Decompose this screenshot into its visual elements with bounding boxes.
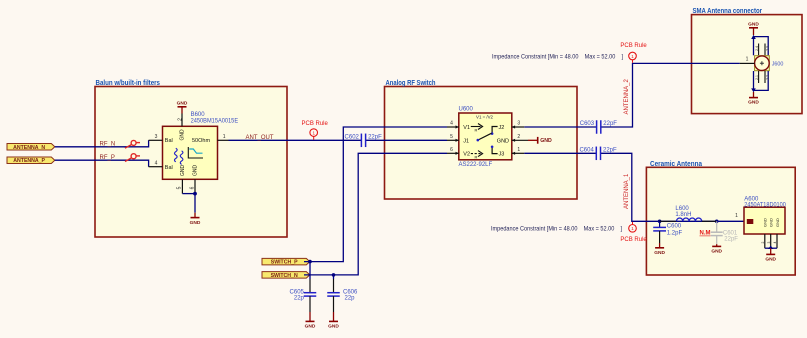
ground below C601: [711, 244, 722, 254]
svg-text:J1: J1: [463, 138, 469, 144]
U600 switch blade: [478, 133, 492, 140]
svg-text:1: 1: [735, 213, 738, 219]
svg-text:GND: GND: [775, 218, 780, 227]
svg-text:1.8nH: 1.8nH: [675, 212, 691, 218]
svg-text:50Ohm: 50Ohm: [192, 138, 210, 144]
junction on SWITCH_N at C606: [332, 273, 336, 277]
op-amp/switch U600 body: [459, 107, 512, 169]
ground below C600: [654, 243, 665, 256]
antenna A600 body: [744, 197, 786, 234]
port SWITCH_P: [262, 258, 310, 265]
svg-text:Impedance Constraint [Min = 48: Impedance Constraint [Min = 48.00 Max = …: [491, 226, 622, 233]
balun pin 2 (top): [181, 114, 183, 127]
U600 pin 1: [512, 152, 524, 154]
svg-text:N.M: N.M: [700, 231, 711, 237]
wire C602 to U600 pin 5: [366, 139, 447, 141]
svg-text:GND: GND: [180, 129, 186, 141]
diff pair directive on RF_N: [125, 140, 140, 148]
svg-text:GND: GND: [305, 324, 316, 330]
J600 center circle: [755, 56, 770, 71]
svg-text:2: 2: [178, 118, 184, 121]
power port GND above J600: [748, 22, 759, 35]
J600 shield pin 2.2: [764, 71, 766, 83]
capacitor C600 1.2pF: [653, 221, 682, 243]
capacitor C603 22pF: [580, 120, 618, 134]
svg-text:Ceramic Antenna: Ceramic Antenna: [650, 161, 702, 168]
port ANTENNA_N: [7, 144, 55, 151]
power port GND below J600: [748, 92, 759, 106]
svg-text:GND: GND: [769, 218, 774, 227]
wire tying A600 ground pins: [765, 247, 777, 249]
svg-text:ANTENNA_N: ANTENNA_N: [13, 145, 45, 151]
svg-text:2.2: 2.2: [766, 75, 770, 80]
balun pin 1: [218, 139, 229, 141]
sheet region: Ceramic Antenna: [646, 161, 795, 275]
svg-text:C604: C604: [579, 147, 594, 153]
svg-text:J2: J2: [499, 125, 505, 131]
A600 pin 4: [776, 234, 778, 248]
ground below C605: [305, 312, 316, 330]
wire C603 to SMA pin 1: [601, 63, 740, 127]
svg-text:1.2pF: 1.2pF: [667, 230, 683, 236]
svg-text:PCB Rule: PCB Rule: [620, 237, 647, 243]
svg-text:V1: V1: [463, 125, 470, 131]
capacitor C605 22p: [290, 279, 317, 312]
svg-text:SMA Antenna connector: SMA Antenna connector: [693, 8, 763, 15]
junction at C600: [658, 220, 662, 224]
svg-text:L600: L600: [675, 206, 689, 212]
svg-text:Impedance Constraint [Min = 48: Impedance Constraint [Min = 48.00 Max = …: [492, 54, 623, 61]
svg-text:GND: GND: [711, 248, 722, 254]
J600 shield pin 2.4: [758, 44, 760, 56]
svg-text:1: 1: [223, 134, 226, 140]
svg-text:1: 1: [746, 56, 749, 62]
svg-text:GND: GND: [654, 250, 665, 256]
svg-text:22pF: 22pF: [368, 134, 382, 140]
svg-text:6: 6: [450, 147, 453, 153]
balun filter icon response curve: [189, 149, 202, 153]
svg-text:3: 3: [155, 134, 158, 140]
power port GND below A600: [765, 248, 776, 262]
svg-text:GND: GND: [180, 165, 186, 177]
junction triangle bottom shield: [751, 88, 756, 92]
wire RF_N from ANTENNA_N to balun pin 3: [55, 140, 149, 147]
svg-text:4: 4: [450, 121, 453, 127]
wire C606 branch down: [333, 275, 335, 279]
svg-text:C600: C600: [667, 224, 682, 230]
capacitor C601 22pF (not mounted, ghosted): [700, 221, 739, 244]
svg-text:C603: C603: [580, 121, 595, 127]
svg-text:1: 1: [517, 147, 520, 153]
svg-text:R: R: [475, 155, 478, 160]
svg-text:GND: GND: [190, 220, 201, 226]
A600 pin 3: [770, 234, 772, 248]
balun pin 3: [149, 139, 163, 141]
svg-text:RF_P: RF_P: [100, 155, 115, 161]
wire ANTENNA_2: U600 pin 3 to C603: [524, 126, 597, 128]
svg-text:2450AT18D0100: 2450AT18D0100: [744, 202, 786, 208]
svg-text:U600: U600: [459, 107, 474, 113]
svg-text:5: 5: [177, 186, 183, 189]
svg-text:2.3: 2.3: [766, 46, 770, 51]
svg-text:ANTENNA_P: ANTENNA_P: [13, 158, 45, 164]
wire shield bottom loop: [753, 71, 755, 90]
svg-text:Bal: Bal: [165, 165, 173, 171]
junction balun bottom: [193, 192, 197, 196]
wire C604 down to ceramic antenna net: [600, 153, 744, 221]
svg-text:GND: GND: [177, 101, 188, 107]
balun coil 1: [174, 148, 177, 162]
svg-text:AS222-92LF: AS222-92LF: [459, 162, 493, 168]
svg-text:6: 6: [190, 186, 196, 189]
svg-text:2.1: 2.1: [755, 75, 759, 80]
svg-text:R: R: [475, 128, 478, 133]
wire V2 net: U600 pin 6 to SWITCH_N: [304, 153, 447, 275]
svg-text:RF_N: RF_N: [100, 142, 116, 148]
svg-text:4: 4: [773, 241, 777, 243]
svg-text:3: 3: [767, 241, 771, 243]
balun filter icon axes: [188, 147, 203, 158]
junction on SWITCH_P at C605: [308, 260, 312, 264]
junction at C601: [715, 220, 719, 224]
svg-text:PCB Rule: PCB Rule: [302, 121, 329, 127]
svg-text:ANT_OUT: ANT_OUT: [246, 135, 274, 141]
svg-text:ANTENNA_1: ANTENNA_1: [624, 173, 630, 209]
svg-text:3: 3: [517, 121, 520, 127]
svg-text:J600: J600: [772, 61, 784, 67]
svg-text:GND: GND: [763, 218, 768, 227]
svg-text:Analog RF Switch: Analog RF Switch: [386, 80, 436, 87]
svg-text:SWITCH_P: SWITCH_P: [271, 260, 298, 266]
junction triangle A600 gnd: [768, 246, 773, 249]
svg-text:22pF: 22pF: [724, 237, 738, 243]
wire down to GND below balun: [194, 194, 196, 213]
svg-text:V2: V2: [463, 152, 470, 158]
svg-text:GND: GND: [765, 256, 776, 262]
svg-text:2.4: 2.4: [755, 46, 759, 51]
svg-text:GND: GND: [193, 165, 199, 177]
PCB Rule marker on ANT_OUT: [302, 121, 329, 140]
U600 pin 3: [512, 126, 524, 128]
svg-text:GND: GND: [328, 324, 339, 330]
svg-text:SWITCH_N: SWITCH_N: [271, 273, 298, 279]
svg-text:PCB Rule: PCB Rule: [620, 43, 647, 49]
J600 body square: [755, 56, 770, 71]
power port GND at U600 pin 2: [528, 137, 552, 144]
wire V1 net: U600 pin 4 to SWITCH_P: [304, 127, 447, 262]
capacitor C604 22pF: [579, 147, 617, 161]
svg-text:22pF: 22pF: [603, 147, 617, 153]
svg-text:C602: C602: [345, 134, 360, 140]
U600 pin 5: [447, 139, 459, 141]
PCB Rule marker on ANTENNA_2: [620, 43, 647, 63]
svg-text:GND: GND: [497, 138, 509, 144]
svg-text:B600: B600: [191, 112, 206, 118]
svg-text:Balun w/built-in filters: Balun w/built-in filters: [96, 80, 161, 87]
power port GND below balun: [190, 213, 201, 226]
port ANTENNA_P: [7, 157, 55, 164]
svg-text:5: 5: [450, 134, 453, 140]
svg-text:Bal: Bal: [165, 138, 173, 144]
U600 pin 4: [447, 126, 459, 128]
A600 pin 2: [764, 234, 766, 248]
svg-text:2450BM15A0015E: 2450BM15A0015E: [191, 119, 239, 125]
svg-text:22pF: 22pF: [603, 121, 617, 127]
svg-text:J3: J3: [499, 152, 505, 158]
svg-text:2: 2: [761, 241, 765, 243]
inductor L600 1.8nH: [660, 206, 717, 221]
wire C605 branch down: [309, 262, 311, 279]
balun coil 2: [180, 151, 183, 165]
U600 pin 6: [447, 152, 459, 154]
svg-text:22p: 22p: [345, 296, 356, 302]
capacitor C606 22p: [327, 279, 358, 312]
svg-text:ANTENNA_2: ANTENNA_2: [624, 78, 630, 114]
capacitor C602 22pF: [345, 134, 383, 148]
diff pair directive on RF_P: [125, 154, 140, 162]
wire RF_P from ANTENNA_P to balun pin 4: [55, 160, 149, 167]
svg-text:2: 2: [517, 134, 520, 140]
sheet region: Balun w/built-in filters: [95, 80, 287, 237]
balun pin 5 (bottom): [181, 179, 183, 193]
svg-text:4: 4: [155, 161, 158, 167]
J600 shield pin 2.1: [758, 71, 760, 83]
balun pin 4: [149, 166, 163, 168]
port SWITCH_N: [262, 272, 310, 279]
balun bottom pins tie wire: [182, 193, 195, 195]
svg-text:GND: GND: [748, 100, 759, 106]
J600 pin 1: [740, 62, 755, 64]
sheet region: Analog RF Switch: [385, 80, 578, 199]
balun pin 6 (bottom): [194, 179, 196, 193]
junction triangle top shield: [751, 35, 756, 39]
svg-text:22p: 22p: [294, 296, 305, 302]
sheet region: SMA Antenna connector: [692, 8, 803, 114]
ground below C606: [328, 312, 339, 330]
balun B600 body: [163, 112, 239, 179]
wire ANT_OUT from balun pin 1 to C602: [229, 139, 362, 141]
wire shield top loop: [753, 37, 755, 56]
svg-text:V1 = /V2: V1 = /V2: [476, 115, 494, 120]
svg-text:GND: GND: [748, 22, 759, 28]
wire ANTENNA_1: U600 pin 1 to C604: [524, 152, 596, 154]
power port GND above balun pin 2: [177, 101, 188, 114]
J600 shield pin 2.3: [764, 44, 766, 56]
PCB Rule marker on ANTENNA_1: [620, 222, 647, 243]
svg-text:GND: GND: [540, 138, 552, 144]
U600 pin 2: [512, 139, 528, 141]
